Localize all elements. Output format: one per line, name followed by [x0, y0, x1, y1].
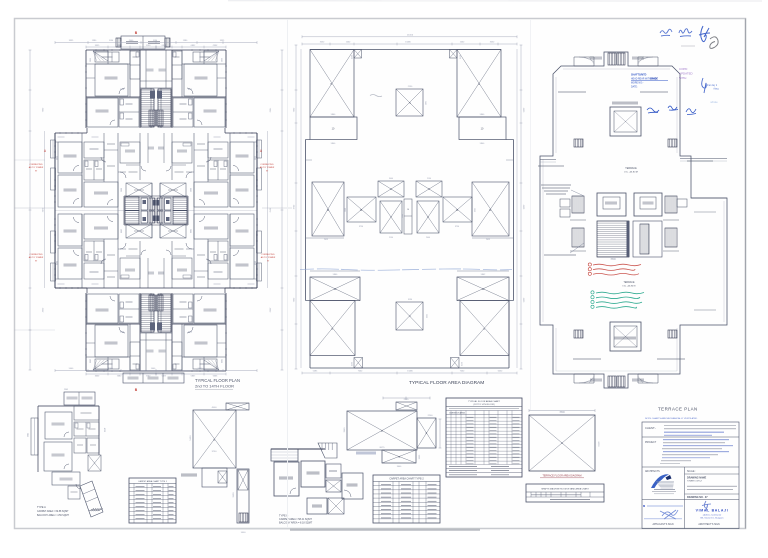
wing dim ticks — [86, 46, 156, 48]
top-right blue signature 1 — [660, 29, 672, 36]
carpet area chart type 2 table — [373, 475, 440, 523]
svg-text:2000: 2000 — [426, 237, 430, 239]
svg-text:2nd TO 14TH FLOOR: 2nd TO 14TH FLOOR — [195, 384, 234, 389]
common southwest wall label right — [640, 91, 668, 93]
area diagram rect 10 top-left — [310, 117, 357, 140]
middle X-rect 7 — [380, 201, 402, 233]
svg-text:TERRACE FLOOR AREA DIAGRAM: TERRACE FLOOR AREA DIAGRAM — [542, 475, 581, 478]
wing window ticks — [95, 49, 97, 51]
svg-text:2055: 2055 — [220, 58, 222, 62]
wing bedroom 2 — [87, 98, 118, 127]
wing small toilet upper — [130, 342, 140, 370]
band hall walls — [103, 133, 105, 182]
svg-text:ARCHITECTS: ARCHITECTS — [645, 470, 660, 473]
svg-text:3750: 3750 — [359, 226, 363, 228]
top wing outer wall — [86, 49, 156, 51]
overflow pipe note — [544, 254, 576, 256]
svg-text:AS TO TOWER: AS TO TOWER — [260, 166, 275, 169]
svg-text:2000: 2000 — [121, 188, 123, 192]
area diagram big X-rect top-right — [457, 50, 501, 118]
svg-text:CORRECTED: CORRECTED — [29, 164, 43, 166]
svg-text:B/L Sector 15, Gurgaon: B/L Sector 15, Gurgaon — [701, 517, 725, 520]
band core center strip — [159, 183, 161, 211]
band small room — [208, 263, 228, 279]
band core X-box — [160, 224, 186, 238]
svg-text:3130: 3130 — [233, 492, 235, 498]
wing small toilet upper — [172, 51, 182, 79]
left plan bottom dimension line — [55, 370, 257, 372]
svg-text:(1ST TO 14TH FLOOR): (1ST TO 14TH FLOOR) — [473, 404, 494, 406]
right arm labels — [694, 211, 716, 213]
wing wall lines — [182, 356, 226, 358]
middle rect 14 right — [443, 197, 472, 222]
svg-text:address Contractor: address Contractor — [703, 513, 722, 516]
type A small cells — [74, 438, 86, 453]
title block column line — [684, 467, 686, 529]
type A area diagram group — [181, 403, 249, 534]
svg-text:15080: 15080 — [407, 371, 413, 373]
wing center corridor walls — [165, 50, 167, 88]
band outer wall top-left — [55, 132, 87, 134]
louver fan top corner — [93, 360, 108, 370]
wing window ticks — [215, 49, 217, 51]
svg-text:2000: 2000 — [189, 229, 191, 233]
svg-text:3635: 3635 — [57, 261, 59, 265]
plan quadrant top-right — [156, 45, 262, 211]
common southwest wall label left — [558, 91, 586, 93]
terrace plan group — [538, 52, 727, 388]
blue crease line across diagram — [300, 269, 512, 270]
green handwritten notes — [596, 292, 644, 294]
svg-text:CORRECTED: CORRECTED — [29, 254, 43, 256]
terrace bottom stub hatch — [608, 376, 616, 387]
bottom center square — [396, 302, 423, 330]
band tiny dims — [248, 136, 255, 138]
svg-text:11960: 11960 — [107, 368, 113, 370]
applicant signature scribble — [660, 510, 678, 519]
type B diagram right rect — [417, 418, 436, 448]
wing toilet block — [119, 294, 139, 323]
terrace small side tabs — [574, 139, 583, 147]
band outer wall top-left — [55, 287, 87, 289]
area diagram top edge — [310, 49, 501, 51]
machine room right stack — [665, 196, 677, 213]
band core stair treads — [125, 211, 139, 225]
band center connecting walls — [118, 210, 194, 212]
svg-text:VIMAL BALAJI: VIMAL BALAJI — [696, 509, 729, 513]
vertical fold crease right — [530, 19, 532, 410]
louver fan top corner — [204, 360, 219, 370]
band bedroom B — [58, 175, 82, 207]
area diagram center square top — [396, 89, 423, 116]
type A kitchen lower — [52, 472, 80, 485]
band core lift — [165, 211, 172, 223]
wing kitchen — [193, 52, 217, 62]
wing kitchen — [95, 52, 119, 62]
typical floor area diagram group — [294, 34, 525, 386]
wing bedroom 2 — [194, 294, 225, 323]
left typical floor plan group — [15, 31, 293, 392]
svg-text:2365: 2365 — [64, 389, 68, 391]
area diagram left dimension line — [295, 45, 297, 369]
band bedroom C — [194, 182, 228, 207]
band entry arcs — [186, 172, 192, 178]
wing lift shaft hatch — [157, 110, 164, 126]
svg-text:2415: 2415 — [324, 239, 328, 241]
svg-text:TYPE A: TYPE A — [37, 506, 46, 509]
typical floor area chart table — [446, 398, 522, 477]
type A diagram caption — [181, 473, 197, 475]
band small room — [208, 142, 228, 158]
title block outer frame — [642, 422, 739, 529]
svg-text:CARPET AREA CHART TYPE 1: CARPET AREA CHART TYPE 1 — [138, 480, 168, 483]
type A toilet upper — [74, 422, 99, 436]
band kitchen — [172, 258, 192, 279]
wing stair core treads — [141, 294, 154, 332]
svg-text:TOWER 6 CH 6-7: TOWER 6 CH 6-7 — [687, 481, 702, 483]
type A diagram right strip — [237, 469, 249, 523]
bottom small X-box right — [451, 358, 460, 369]
type A diagram strip hatch — [239, 513, 248, 522]
svg-text:DRAWING NAME: DRAWING NAME — [687, 476, 707, 479]
left plan top dimension line — [55, 42, 257, 44]
svg-text:2440: 2440 — [188, 330, 192, 332]
wing toilet block — [119, 98, 139, 127]
band bedroom B — [230, 214, 254, 246]
svg-text:1400: 1400 — [241, 532, 247, 534]
bottom border shadow segment — [290, 529, 480, 531]
lift machine room box right — [634, 193, 662, 216]
band small bay top — [55, 278, 58, 280]
blue flourish annotation — [702, 78, 707, 93]
svg-text:16: 16 — [407, 209, 409, 211]
architect logo text — [652, 491, 676, 493]
band core stair treads — [173, 197, 187, 211]
type A entry arc — [76, 484, 81, 489]
band bedroom C — [194, 214, 228, 239]
band small bay top — [254, 141, 257, 143]
band core stair treads — [173, 211, 187, 225]
band window ticks — [54, 145, 56, 147]
band core stair treads — [125, 197, 139, 211]
wing core dark blob — [150, 323, 155, 331]
type B lift — [326, 480, 341, 492]
svg-text:2440: 2440 — [188, 89, 192, 91]
applicant stamp line 2 — [644, 518, 682, 520]
top wing outer wall — [156, 370, 226, 372]
top-right blue signature Ular — [679, 29, 692, 37]
type A crossed store — [88, 455, 101, 471]
type A diagonal corridor — [80, 481, 103, 517]
common parapet wall labels middle — [538, 165, 564, 167]
wing core dark blob — [150, 91, 155, 99]
domestic water tank note — [541, 184, 571, 186]
type B entry stair — [318, 443, 337, 458]
red handwritten notes — [593, 264, 641, 266]
svg-text:3635: 3635 — [254, 261, 256, 265]
terrace overhead water tank top — [610, 107, 641, 136]
area diagram right dimension line — [520, 45, 522, 369]
type B top wall — [271, 448, 325, 450]
left plan extension lines into margin — [15, 329, 56, 331]
wing lift shaft hatch — [157, 295, 164, 311]
band bedroom C — [84, 182, 118, 207]
band core lift — [141, 211, 148, 223]
band window ticks — [256, 145, 258, 147]
terrace top stub hatch — [608, 53, 616, 65]
terrace right core — [633, 221, 662, 257]
type B diagram top small — [396, 402, 417, 410]
svg-text:3750: 3750 — [212, 451, 218, 453]
band bedroom B — [58, 214, 82, 246]
middle narrow strip 16 — [404, 199, 412, 234]
wing center corridor walls — [145, 333, 147, 371]
svg-text:PROJECT: PROJECT — [645, 441, 657, 444]
svg-text:LVL +46.80 M: LVL +46.80 M — [624, 172, 638, 174]
band balcony tabs — [257, 140, 262, 158]
svg-text:UPDATED: UPDATED — [679, 71, 693, 75]
louver fan top corner — [204, 51, 219, 61]
type B area diagram group — [344, 397, 441, 468]
svg-text:1570: 1570 — [459, 55, 461, 59]
svg-text:3110: 3110 — [344, 427, 346, 432]
wing center corridor walls — [145, 50, 147, 88]
middle small X 9 — [416, 181, 442, 197]
svg-text:AS TO TOWER: AS TO TOWER — [29, 256, 44, 259]
wing center corridor walls — [165, 333, 167, 371]
band balcony tabs — [257, 263, 262, 281]
terrace inner parapet line — [555, 77, 557, 153]
type B living — [342, 473, 363, 499]
svg-text:2440: 2440 — [120, 89, 124, 91]
terrace overhead water tank bottom — [610, 322, 641, 351]
band outer wall top-left — [225, 287, 257, 289]
type A rear box — [64, 392, 95, 405]
type A diagram main X-rect — [193, 410, 236, 468]
band core wall — [124, 195, 156, 197]
type B kitchen — [307, 498, 327, 514]
svg-text:APPLICANT'S SIGN: APPLICANT'S SIGN — [653, 523, 674, 526]
svg-text:CORRECTED: CORRECTED — [261, 254, 275, 256]
terrace area X-rect diagram — [529, 409, 599, 478]
machine room left stack — [572, 196, 584, 213]
area diagram left boundary — [306, 139, 311, 141]
svg-text:NOTE: SHAFTS ARE MECHANICALLY: NOTE: SHAFTS ARE MECHANICALLY VENTILATED — [645, 417, 698, 420]
svg-text:4500: 4500 — [212, 407, 218, 409]
svg-text:SCALE :: SCALE : — [687, 470, 696, 473]
bottom small X-box left — [354, 358, 363, 369]
blue scribble SW — [647, 108, 659, 113]
top head box — [121, 36, 165, 49]
band small bay top — [254, 278, 257, 280]
band outer wall top-left — [225, 132, 257, 134]
band tiny dims — [58, 283, 65, 285]
svg-text:1570: 1570 — [460, 362, 462, 366]
wing wall lines — [86, 356, 130, 358]
bottom big X-rect right — [460, 301, 509, 356]
middle partial walls — [306, 237, 345, 239]
wing stair core treads — [141, 89, 154, 127]
svg-text:AS TO TOWER: AS TO TOWER — [29, 166, 44, 169]
svg-text:M: M — [643, 504, 645, 508]
middle rect 14 left — [347, 197, 376, 222]
top scan edge line — [228, 0, 762, 2]
wing dim ticks — [86, 373, 156, 375]
wing toilet block — [173, 294, 193, 323]
band core lift — [165, 198, 172, 210]
svg-text:8075: 8075 — [380, 447, 386, 449]
architect logo striped hill — [656, 481, 674, 483]
band toilet pair — [208, 241, 228, 261]
svg-text:TYPICAL FLOOR PLAN: TYPICAL FLOOR PLAN — [195, 378, 240, 383]
area diagram big X-rect top-left — [310, 50, 354, 118]
wing dim ticks — [156, 46, 226, 48]
band kitchen — [120, 258, 140, 279]
bottom head box — [123, 373, 184, 383]
band small room — [84, 142, 104, 158]
terrace stub side labels — [590, 56, 602, 58]
svg-text:CARPET AREA CHART TYPE-2: CARPET AREA CHART TYPE-2 — [389, 478, 424, 481]
wing lift shaft hatch — [149, 295, 156, 311]
band core wall — [156, 195, 188, 197]
svg-text:thing: thing — [714, 87, 720, 90]
chart summary rows — [446, 468, 522, 470]
plan quadrant bottom-right — [156, 211, 262, 377]
svg-text:CORRECTED: CORRECTED — [260, 164, 274, 166]
svg-text:BALCONY AREA = 4.59 SQMT: BALCONY AREA = 4.59 SQMT — [37, 514, 70, 517]
middle small X 2 — [378, 181, 404, 197]
band kitchen — [172, 142, 192, 163]
svg-text:TYPICAL FLOOR AREA CHART: TYPICAL FLOOR AREA CHART — [468, 400, 500, 403]
band bedroom B — [230, 175, 254, 207]
parapet arm lines right — [680, 158, 727, 160]
band bedroom A — [58, 248, 82, 279]
wing kitchen — [193, 359, 217, 369]
svg-text:2000: 2000 — [425, 314, 427, 318]
band window ticks — [256, 274, 258, 276]
faint pencil note — [681, 45, 695, 47]
wing toilet block — [173, 98, 193, 127]
architect logo swoosh — [651, 474, 669, 488]
svg-text:3000: 3000 — [389, 178, 393, 180]
louver fan top corner — [93, 51, 108, 61]
wing bedroom 2 — [87, 294, 118, 323]
svg-text:2415: 2415 — [486, 239, 490, 241]
band core wall — [124, 224, 156, 226]
band corridor walls — [139, 133, 141, 180]
type B diagram main X-rect — [347, 411, 417, 450]
area diagram small X-box top-right — [450, 50, 458, 59]
band balcony tabs — [51, 263, 56, 281]
type A bedroom 2 — [44, 442, 72, 471]
carpet area chart type 1 table — [129, 478, 176, 523]
wing bedroom 2 — [194, 98, 225, 127]
band window ticks — [54, 274, 56, 276]
head box side hatch — [116, 38, 121, 47]
wing small toilet upper — [172, 342, 182, 370]
terrace louver top-right — [638, 57, 658, 66]
band bedroom A — [230, 248, 254, 279]
bottom big X-rect left — [310, 301, 355, 356]
band corridor walls — [171, 133, 173, 180]
wing window ticks — [95, 370, 97, 372]
svg-text:1985: 1985 — [424, 101, 426, 105]
type B bedroom 1 — [274, 462, 299, 496]
blue scribble initials A — [668, 106, 678, 110]
band core center strip — [159, 211, 161, 239]
wing core dark blob — [157, 323, 162, 331]
blue scribble PR signature — [686, 109, 696, 115]
band core X-box — [126, 224, 152, 238]
architect flourish — [702, 501, 711, 512]
band tiny dims — [248, 283, 255, 285]
area diagram right boundary — [506, 139, 514, 141]
bottom rect 10 with X — [457, 277, 509, 301]
title block row lines — [642, 436, 739, 438]
type A diagram step rooms — [202, 468, 227, 487]
middle X-rect 8 — [417, 201, 439, 233]
svg-text:3635: 3635 — [57, 156, 59, 160]
svg-text:LVL +46.80 M: LVL +46.80 M — [623, 286, 636, 288]
band core center strip — [151, 183, 153, 211]
type A kitchen upper — [74, 406, 99, 420]
type A outer wall — [38, 405, 99, 407]
svg-text:TERRACE PLAN: TERRACE PLAN — [658, 407, 698, 412]
wing dim ticks — [156, 373, 226, 375]
leader lines left — [571, 190, 584, 196]
wing lift shaft hatch — [149, 110, 156, 126]
svg-text:3045: 3045 — [28, 433, 30, 437]
left plan right dimension lines — [281, 50, 283, 370]
band toilet pair — [208, 160, 228, 180]
svg-text:CLIENT:-: CLIENT:- — [645, 426, 656, 430]
wing bedroom 1 — [184, 325, 217, 357]
svg-text:BALCONY AREA = 8.18 SQMT: BALCONY AREA = 8.18 SQMT — [279, 522, 313, 525]
wing kitchen — [95, 359, 119, 369]
svg-text:1245: 1245 — [402, 214, 404, 218]
middle X-rect right 11 — [472, 182, 509, 236]
lift machine room box left — [597, 193, 626, 216]
band core X-box — [126, 183, 152, 197]
svg-text:7800: 7800 — [559, 411, 565, 414]
svg-text:SHAFTS MACHINE ROOM W.TANK ARE: SHAFTS MACHINE ROOM W.TANK AREA CHART — [541, 488, 589, 491]
type B balcony — [271, 449, 298, 461]
svg-text:1060: 1060 — [473, 208, 475, 212]
band hall walls — [103, 239, 105, 288]
svg-text:21000: 21000 — [407, 34, 414, 36]
svg-text:TERRACE: TERRACE — [624, 281, 635, 284]
wing wall lines — [86, 63, 130, 65]
type A diagram top small rect — [226, 403, 249, 410]
wing bedroom 1 — [184, 64, 217, 96]
type B diagram bottom rect — [382, 450, 416, 463]
terrace outline wall — [540, 52, 727, 388]
wing bedroom 1 — [95, 64, 128, 96]
svg-text:1060: 1060 — [345, 208, 347, 212]
band bedroom C — [84, 214, 118, 239]
svg-text:3750: 3750 — [455, 226, 459, 228]
wing stair core treads — [158, 294, 171, 332]
svg-text:COPD: COPD — [679, 67, 687, 71]
svg-text:X: X — [213, 438, 215, 442]
wing core dark blob — [157, 91, 162, 99]
band bedroom A — [230, 142, 254, 173]
band balcony tabs — [51, 140, 56, 158]
svg-text:6000: 6000 — [597, 442, 599, 448]
top wing outer wall — [156, 49, 226, 51]
band small room — [84, 263, 104, 279]
svg-text:2440: 2440 — [120, 330, 124, 332]
